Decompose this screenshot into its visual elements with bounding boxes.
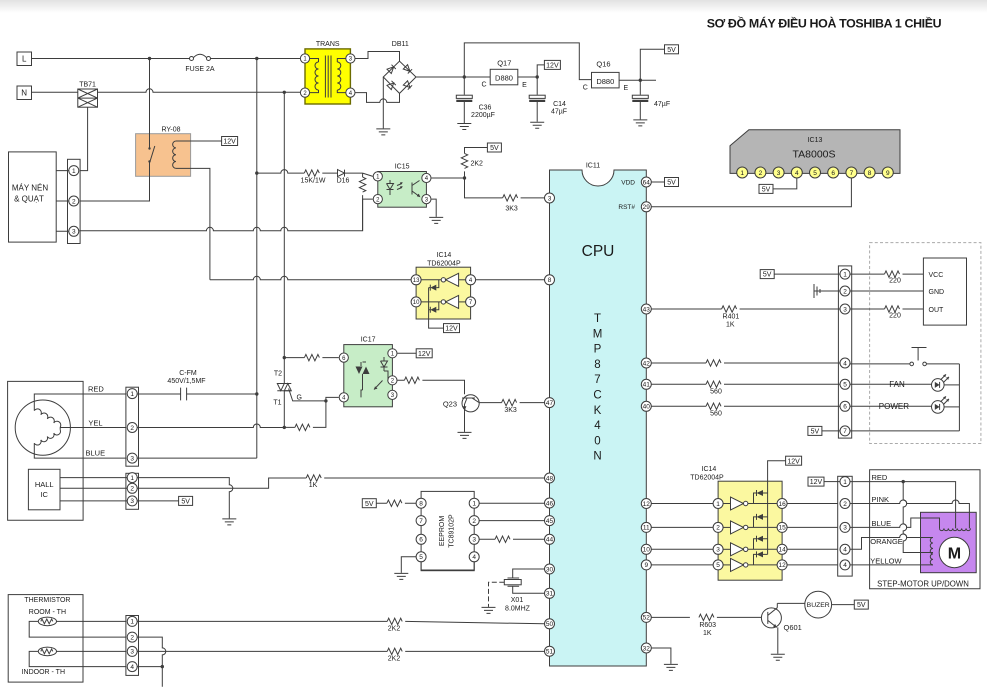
svg-text:12V: 12V: [810, 479, 823, 486]
svg-text:C-FM: C-FM: [179, 370, 197, 377]
cpu pin 64: [641, 177, 651, 187]
svg-text:2: 2: [843, 288, 847, 295]
wire triac gate: [289, 389, 328, 403]
svg-text:C: C: [593, 390, 601, 402]
thermistor box: [8, 595, 83, 683]
svg-text:1: 1: [72, 168, 76, 175]
svg-text:FAN: FAN: [889, 380, 905, 389]
svg-text:40: 40: [643, 404, 651, 411]
cpu pin 11: [641, 522, 651, 532]
connector display panel: [838, 266, 851, 438]
svg-text:E: E: [623, 85, 628, 92]
svg-text:30: 30: [546, 566, 554, 573]
resistor IC15 input bleed: [359, 173, 365, 231]
svg-text:4: 4: [843, 562, 847, 569]
svg-text:C36: C36: [479, 105, 492, 112]
wire TRANS pin 4 to bridge: [355, 93, 400, 103]
cpu pin 43: [641, 304, 651, 314]
IC14B pin 3: [713, 544, 723, 554]
IC14B pin 2: [713, 522, 723, 532]
resistor R401 1K: [651, 306, 840, 329]
IC14B pin 14: [777, 544, 787, 554]
svg-text:& QUẠT: & QUẠT: [14, 195, 44, 204]
svg-text:BUZER: BUZER: [807, 602, 830, 609]
svg-text:3: 3: [843, 306, 847, 313]
svg-text:7: 7: [843, 428, 847, 435]
wire Q16 emitter node: [619, 79, 656, 82]
voltage label 12V step motor: [808, 477, 840, 486]
IC13 pin 8: [864, 167, 875, 178]
svg-text:51: 51: [546, 649, 554, 656]
svg-text:15K/1W: 15K/1W: [301, 178, 326, 185]
transformer primary winding: [310, 59, 319, 93]
svg-text:IC: IC: [40, 490, 48, 499]
svg-text:8: 8: [594, 359, 600, 371]
svg-text:G: G: [297, 395, 302, 402]
wire pin2 to ir gnd: [850, 290, 923, 292]
svg-text:N: N: [21, 89, 27, 98]
svg-text:13: 13: [413, 278, 420, 284]
svg-text:4: 4: [795, 170, 799, 177]
svg-text:1: 1: [843, 271, 847, 278]
svg-text:2: 2: [130, 634, 134, 641]
led FAN: [850, 374, 959, 391]
transformer core: [325, 56, 331, 98]
IC15 pin 1: [373, 172, 382, 181]
svg-text:K: K: [594, 405, 602, 417]
svg-text:3: 3: [72, 229, 76, 236]
voltage label 12V Q17: [537, 60, 560, 77]
wire step center tap: [903, 482, 933, 553]
svg-text:1K: 1K: [309, 482, 318, 489]
wire bridge plus output: [416, 75, 490, 78]
svg-text:2: 2: [130, 486, 134, 493]
cpu pin 48: [545, 473, 555, 483]
svg-text:11: 11: [643, 525, 650, 532]
ground bridge: [376, 129, 390, 135]
svg-text:8: 8: [548, 277, 552, 284]
wire IC15 pin4 node: [431, 176, 466, 179]
svg-text:3: 3: [130, 498, 134, 505]
cpu pin 42: [641, 358, 651, 368]
fuse FUSE 2A: [185, 54, 215, 73]
connector step motor: [838, 476, 853, 576]
hall sensor HALL IC: [28, 469, 60, 510]
svg-text:45: 45: [546, 518, 554, 525]
svg-text:2: 2: [759, 170, 763, 177]
svg-text:2K2: 2K2: [388, 625, 401, 632]
cpu pin 41: [641, 379, 651, 389]
svg-text:CPU: CPU: [582, 243, 615, 260]
svg-text:3K3: 3K3: [504, 407, 517, 414]
cpu pin 31: [545, 588, 555, 598]
svg-text:SƠ ĐỒ MÁY ĐIỀU HOÀ TOSHIBA 1 C: SƠ ĐỒ MÁY ĐIỀU HOÀ TOSHIBA 1 CHIỀU: [707, 16, 942, 31]
svg-text:1: 1: [740, 170, 744, 177]
IC17 pin 3: [388, 390, 397, 399]
cpu pin 10: [641, 544, 651, 554]
IC14B diode bus to 12V: [768, 456, 802, 554]
wire Q17 emitter node: [518, 75, 539, 78]
transformer TRANS: [305, 41, 350, 104]
svg-text:T2: T2: [274, 371, 282, 378]
ic IC14 TD62004P driver A: [416, 252, 471, 319]
svg-text:9: 9: [886, 170, 890, 177]
svg-text:10: 10: [413, 300, 420, 306]
svg-text:VCC: VCC: [929, 272, 944, 279]
svg-text:4: 4: [130, 664, 134, 671]
step motor outer box: [870, 470, 980, 589]
svg-text:5V: 5V: [857, 602, 866, 609]
svg-text:31: 31: [546, 591, 554, 598]
wire panel right rail: [958, 364, 960, 431]
IC14A pin 7: [466, 297, 476, 307]
wire TRANS pin 3 to bridge: [355, 52, 400, 62]
IC14B buffer channel 3: [723, 536, 777, 556]
svg-text:4: 4: [472, 554, 476, 561]
IC14A pin 10: [411, 297, 421, 307]
wire BLUE to L bus: [137, 457, 257, 459]
step motor top coil: [940, 528, 971, 530]
svg-text:10: 10: [643, 547, 651, 554]
ground C14: [530, 122, 544, 128]
svg-text:2200µF: 2200µF: [471, 112, 495, 119]
IC14B buffer channel 2: [723, 514, 777, 534]
svg-text:6: 6: [419, 537, 423, 544]
svg-text:12: 12: [643, 501, 651, 508]
cpu pin 40: [641, 401, 651, 411]
svg-text:EEPROM: EEPROM: [439, 516, 446, 547]
svg-text:IC13: IC13: [808, 137, 823, 144]
transformer pin 1: [300, 54, 309, 63]
svg-text:5V: 5V: [490, 145, 499, 152]
svg-text:1: 1: [843, 479, 847, 486]
led POWER: [850, 396, 959, 413]
svg-text:5: 5: [419, 554, 423, 561]
svg-text:T1: T1: [273, 400, 281, 407]
svg-text:5: 5: [843, 382, 847, 389]
svg-text:47µF: 47µF: [654, 101, 670, 108]
IC14B pin 15: [777, 522, 787, 532]
terminal L: [17, 52, 32, 66]
svg-text:12V: 12V: [223, 139, 236, 146]
svg-text:YEL: YEL: [88, 419, 102, 428]
svg-text:STEP-MOTOR UP/DOWN: STEP-MOTOR UP/DOWN: [877, 579, 969, 588]
svg-text:5V: 5V: [667, 47, 676, 54]
wire hall box to pins: [60, 478, 127, 501]
svg-text:15: 15: [778, 525, 786, 532]
transistor Q23: [443, 395, 502, 412]
svg-text:RST#: RST#: [618, 204, 635, 211]
svg-text:TA8000S: TA8000S: [793, 149, 836, 161]
svg-text:5V: 5V: [811, 429, 820, 436]
eeprom pin 2: [469, 516, 479, 526]
svg-text:R603: R603: [699, 622, 716, 629]
svg-text:3: 3: [548, 195, 552, 202]
svg-text:560: 560: [710, 388, 722, 395]
wire N line: [32, 89, 301, 94]
svg-text:IC11: IC11: [586, 163, 600, 170]
wire relay drive to IC14 pin 13: [210, 276, 411, 280]
voltage label 5V supply: [640, 45, 678, 80]
svg-text:INDOOR - TH: INDOOR - TH: [22, 669, 65, 676]
wire TB71 to connector pin 1: [79, 107, 88, 170]
svg-text:ORANGE: ORANGE: [870, 537, 903, 546]
resistor 2K2 pullup: [461, 148, 487, 179]
svg-text:8.0MHZ: 8.0MHZ: [505, 606, 531, 613]
transistor Q601: [761, 603, 801, 653]
step motor body: [921, 512, 977, 572]
relay RY-08: [136, 127, 191, 177]
cpu part number vertical text: [593, 313, 603, 463]
svg-text:TB71: TB71: [79, 82, 96, 89]
IC14A pin 4: [466, 275, 476, 285]
wire L line: [32, 57, 301, 60]
svg-text:5V: 5V: [365, 501, 374, 508]
svg-text:1: 1: [130, 619, 134, 626]
voltage label 5V IC15: [487, 143, 501, 152]
eeprom pin 7: [416, 516, 426, 526]
voltage label 12V relay coil: [222, 137, 238, 146]
svg-text:TC89102P: TC89102P: [449, 514, 456, 548]
svg-text:IC14: IC14: [437, 252, 452, 259]
connector thermistor: [126, 616, 139, 676]
svg-text:P: P: [594, 344, 602, 356]
eeprom pin 5: [416, 552, 426, 562]
voltage label 12V IC17: [397, 349, 432, 358]
svg-text:D16: D16: [337, 178, 350, 185]
svg-text:IC15: IC15: [395, 164, 410, 171]
svg-text:VDD: VDD: [621, 179, 635, 186]
display panel dashed box: [870, 243, 981, 444]
svg-text:TD62004P: TD62004P: [690, 475, 724, 482]
ground panel pin2: [814, 284, 840, 298]
fan motor symbol: [15, 400, 70, 455]
optocoupler IC15: [378, 164, 427, 208]
svg-text:8: 8: [868, 170, 872, 177]
wire PINK step: [850, 495, 969, 528]
load box MAY NEN & QUAT: [9, 152, 57, 242]
svg-text:BLUE: BLUE: [86, 449, 106, 458]
IC13 pin 6: [828, 167, 839, 178]
connector MAY NEN: [68, 159, 81, 243]
svg-text:Q16: Q16: [596, 60, 610, 69]
wire thermistor common: [137, 637, 166, 687]
svg-text:3: 3: [130, 455, 134, 462]
svg-text:2K2: 2K2: [388, 655, 401, 662]
svg-text:12V: 12V: [546, 63, 559, 70]
svg-text:4: 4: [843, 547, 847, 554]
IC13 pin 9: [882, 167, 893, 178]
wire IC14B outputs to connector: [787, 504, 840, 565]
IC14A common diode bus to 12V: [429, 288, 460, 333]
svg-text:29: 29: [643, 204, 651, 211]
IC13 pin 7: [846, 167, 857, 178]
svg-text:M: M: [593, 328, 603, 340]
svg-text:14: 14: [778, 547, 786, 554]
svg-text:DB11: DB11: [392, 41, 409, 48]
eeprom TC89102P: [421, 491, 474, 570]
wire 17V rail to Q16: [464, 43, 591, 80]
svg-text:FUSE 2A: FUSE 2A: [185, 66, 215, 73]
resistor 3K3 to cpu pin3: [465, 178, 545, 213]
IC15 pin 2: [373, 195, 382, 204]
voltage label 5V VDD: [651, 178, 678, 187]
bridge rectifier DB11: [383, 41, 416, 93]
svg-text:450V/1,5MF: 450V/1,5MF: [167, 378, 205, 385]
svg-text:16: 16: [778, 501, 786, 508]
wire eeprom pin5 pin4 link: [421, 562, 474, 570]
wire N bus vertical: [283, 92, 285, 357]
resistor 2K2 room: [137, 618, 544, 632]
svg-text:1: 1: [130, 475, 134, 482]
wire RED step: [850, 473, 956, 528]
svg-text:5V: 5V: [762, 187, 771, 194]
svg-text:ROOM - TH: ROOM - TH: [29, 609, 66, 616]
IC17 pin 4: [339, 393, 348, 402]
eeprom pin 1: [469, 498, 479, 508]
svg-text:2: 2: [472, 518, 476, 525]
svg-text:Q23: Q23: [443, 400, 457, 409]
svg-text:TD62004P: TD62004P: [427, 261, 461, 268]
cpu pin 52: [641, 612, 651, 622]
IC17 pin 6: [339, 353, 348, 362]
buzzer BUZER: [777, 591, 831, 618]
svg-text:64: 64: [643, 179, 651, 186]
wire L bus vertical: [256, 59, 258, 459]
resistor 220 out: [850, 306, 923, 320]
resistor triac gate: [283, 397, 339, 430]
IC17 pin 1: [388, 349, 397, 358]
voltage label 5V panel pin7: [808, 426, 960, 435]
IC13 pin 4: [791, 167, 802, 178]
cpu pin 45: [545, 516, 555, 526]
svg-text:1K: 1K: [703, 630, 712, 637]
svg-text:2: 2: [843, 501, 847, 508]
resistor 2K2 indoor: [137, 648, 544, 662]
svg-text:5V: 5V: [667, 180, 676, 187]
cpu pin 51: [545, 646, 555, 656]
IC13 pin 5: [810, 167, 821, 178]
svg-text:2: 2: [130, 425, 134, 432]
svg-text:3: 3: [843, 525, 847, 532]
svg-text:4: 4: [843, 360, 847, 367]
resistor IC17 pin6 drive: [283, 354, 339, 360]
IC14B buffer channel 4: [723, 551, 777, 571]
IC14A buffer channel 2: [421, 295, 466, 312]
svg-text:7: 7: [850, 170, 854, 177]
svg-text:7: 7: [594, 374, 600, 386]
svg-text:RY-08: RY-08: [161, 127, 180, 134]
svg-text:TRANS: TRANS: [316, 41, 340, 48]
capacitor C36: [456, 77, 495, 123]
wire motor BLUE: [34, 449, 127, 459]
svg-text:5V: 5V: [763, 272, 772, 279]
wire cpu to IC14B inputs: [651, 504, 713, 565]
ground 47uF: [633, 120, 647, 126]
svg-text:12V: 12V: [787, 458, 800, 465]
svg-text:4: 4: [594, 420, 601, 432]
resistor 220 vcc: [850, 271, 923, 285]
ground IC15: [429, 217, 443, 223]
cpu pin 8: [545, 275, 555, 285]
svg-text:5: 5: [813, 170, 817, 177]
svg-text:41: 41: [643, 382, 651, 389]
wire bridge minus to ground: [382, 77, 384, 128]
wire BLUE step: [850, 518, 940, 528]
IC17 internal triac and led: [356, 357, 389, 397]
wire crystal trim dashed: [489, 582, 505, 607]
svg-text:Q17: Q17: [497, 59, 511, 68]
triac T2 T1: [273, 358, 291, 428]
ground cpu pin 32: [664, 664, 678, 670]
wire room-th leads: [29, 621, 127, 637]
svg-text:1K: 1K: [726, 322, 735, 329]
svg-text:6: 6: [843, 404, 847, 411]
cpu pin 30: [545, 564, 555, 574]
transformer pin 4: [346, 88, 355, 97]
crystal X01 8.0MHZ: [504, 569, 544, 613]
svg-text:PINK: PINK: [872, 495, 890, 504]
cpu pin 46: [545, 498, 555, 508]
wire IC13 pin 7 to CPU RST: [651, 178, 851, 207]
eeprom pin 4: [469, 552, 479, 562]
svg-text:D880: D880: [596, 77, 614, 86]
eeprom pin 6: [416, 534, 426, 544]
resistor IC17 pin2 out: [397, 377, 464, 394]
terminal N: [17, 86, 32, 100]
IC13 pin 2: [755, 167, 766, 178]
svg-text:32: 32: [643, 645, 651, 652]
svg-text:3: 3: [716, 547, 720, 554]
cpu pin 3: [545, 193, 555, 203]
svg-text:HALL: HALL: [35, 480, 54, 489]
svg-text:Q601: Q601: [784, 623, 802, 632]
svg-text:46: 46: [546, 500, 554, 507]
cpu IC11 TMP87CK40N body: [550, 163, 647, 667]
thermistor ROOM-TH: [38, 617, 56, 626]
svg-text:52: 52: [643, 615, 651, 622]
svg-text:3K3: 3K3: [505, 206, 518, 213]
voltage label 5V IC13 pin4: [759, 178, 797, 194]
transformer pin 3: [346, 54, 355, 63]
svg-text:2: 2: [72, 198, 76, 205]
svg-text:43: 43: [643, 306, 651, 313]
ground crystal: [482, 607, 496, 613]
svg-text:2K2: 2K2: [471, 161, 484, 168]
cpu pin 29: [641, 202, 651, 212]
IC14B pin 12: [777, 560, 787, 570]
wire eeprom pin5 ground: [401, 557, 416, 573]
cpu pin 32: [641, 643, 651, 653]
svg-text:N: N: [593, 451, 601, 463]
resistor eeprom pin8: [376, 500, 416, 506]
svg-text:IC14: IC14: [702, 466, 717, 473]
wire eeprom pin1 to cpu46: [479, 502, 544, 504]
svg-text:M: M: [948, 546, 961, 563]
cpu pin 47: [545, 398, 555, 408]
connector hall: [126, 473, 139, 510]
svg-text:560: 560: [710, 410, 722, 417]
ground Q23: [458, 432, 472, 438]
ic IC14 TD62004P driver B: [690, 466, 782, 580]
IC17 pin 2: [388, 376, 397, 385]
connector fan motor: [126, 387, 139, 466]
svg-text:12V: 12V: [445, 326, 458, 333]
svg-text:BLUE: BLUE: [872, 519, 892, 528]
wire IC15 pin3 to ground: [431, 199, 436, 217]
capacitor 47uF: [632, 80, 670, 119]
svg-text:220: 220: [889, 313, 901, 320]
